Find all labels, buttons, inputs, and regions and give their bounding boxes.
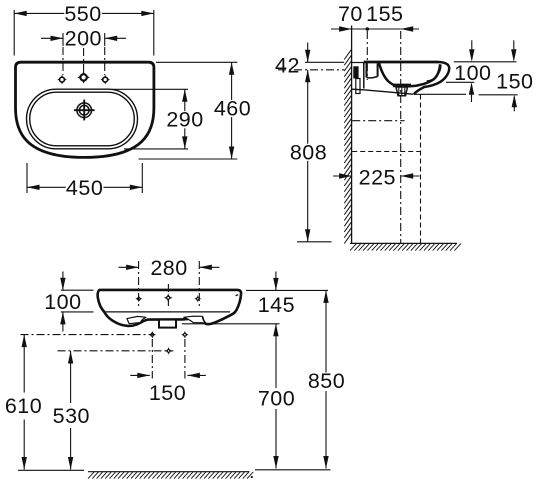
dim 42: label <box>275 54 300 78</box>
side view: front rim lip inner <box>427 65 441 81</box>
dim 70: label <box>338 2 363 26</box>
dim 808: dimension line <box>305 70 310 242</box>
dim 100/150: top extension line <box>454 61 517 63</box>
dim 70/155: wall extension line <box>351 26 353 46</box>
dim 225: dimension line <box>333 173 420 178</box>
side view: rim top surface <box>364 61 439 64</box>
dim 200: dimension line <box>41 36 126 41</box>
dim 100 front: extension lines <box>61 290 94 312</box>
dim 610: label <box>5 394 42 418</box>
dim 200: extension lines <box>63 33 105 75</box>
dim 550: extension lines <box>14 10 154 56</box>
dim 550: label <box>64 2 102 26</box>
dim 200: label <box>65 26 102 50</box>
svg-text:70: 70 <box>338 2 363 26</box>
dim 100: label <box>454 61 491 85</box>
front view: floor reference line right <box>255 469 331 471</box>
svg-text:460: 460 <box>214 97 251 121</box>
plan view: centre tap hole <box>77 71 90 84</box>
dim 145: arrows <box>273 272 278 337</box>
front view: floor reference line left <box>18 469 84 471</box>
svg-text:150: 150 <box>149 381 186 405</box>
svg-text:290: 290 <box>166 108 203 132</box>
front view: right fixing hole <box>181 331 188 338</box>
dim 42: fixing axis dash-dot <box>278 69 344 71</box>
front view: right wing <box>184 316 206 323</box>
side view: bowl inner profile <box>379 63 440 86</box>
side view: drain trap nut <box>396 87 408 96</box>
front view: lower fixing axis dash-dot <box>58 350 174 352</box>
dim 700: dimension line <box>273 324 278 469</box>
dim 100: bottom extension line <box>446 81 474 83</box>
front view: left tap hole <box>135 295 142 302</box>
svg-text:550: 550 <box>64 2 101 26</box>
dim 290: label <box>166 108 204 132</box>
svg-text:100: 100 <box>44 290 81 314</box>
dim 530: label <box>53 404 90 428</box>
front view: floor hatching <box>88 472 253 479</box>
side view: rim back thin ledge <box>352 62 364 64</box>
dim 150: bottom extension line <box>414 93 518 96</box>
dim 145: top extension line <box>246 289 328 291</box>
plan view: right tap hole <box>100 75 110 85</box>
front view: corner tick <box>236 295 239 296</box>
dim 150 front: dimension line <box>130 373 206 378</box>
front view: basin outline <box>98 290 241 326</box>
dim 150: arrows <box>511 40 517 111</box>
dim 145: bottom extension line <box>182 323 280 325</box>
dim 530: dimension line <box>68 351 73 470</box>
svg-text:225: 225 <box>359 165 396 189</box>
side view: drain flange <box>392 84 412 86</box>
svg-text:100: 100 <box>454 61 491 85</box>
dim 70/155: dimension line <box>331 26 419 31</box>
front view: fixing hole axes dash-dot <box>152 339 185 379</box>
side view: lower fixing axis dash-dot <box>352 120 404 122</box>
svg-text:145: 145 <box>258 293 295 317</box>
dim 610: dimension line <box>22 335 27 470</box>
dim 550: dimension line <box>14 11 154 16</box>
dim 100: arrow tail <box>471 40 473 49</box>
dim 808: label <box>290 140 328 164</box>
svg-text:808: 808 <box>290 140 327 164</box>
front view: upper fixing axis dash-dot <box>21 334 155 336</box>
dim 150: label <box>496 69 533 93</box>
dim 150 front: label <box>149 381 186 405</box>
dim 290: dimension line <box>182 89 187 149</box>
side view: basin back edge <box>363 62 365 89</box>
plan view: left tap hole <box>57 75 67 85</box>
plan view: bowl outer rim <box>27 89 138 149</box>
side view: fixing bracket <box>353 66 360 93</box>
svg-text:155: 155 <box>366 2 403 26</box>
dim 850: label <box>308 369 345 393</box>
svg-text:700: 700 <box>258 387 295 411</box>
side view: wall hatching <box>344 49 351 243</box>
dim 460: dimension line <box>229 62 234 159</box>
dim 280: dimension line <box>119 265 220 270</box>
front view: right tap hole <box>194 295 201 302</box>
side view: front rim lip outer <box>414 62 449 94</box>
dim 450: extension lines <box>27 163 142 193</box>
dim 225: label <box>359 165 396 189</box>
dim 460: extension lines <box>139 62 238 159</box>
side view: tap hole axis dash-dot <box>366 31 368 80</box>
dim 290: extension lines <box>112 89 188 149</box>
dim 280: extension lines dash-dot <box>139 261 200 308</box>
svg-text:280: 280 <box>150 256 187 280</box>
plan view: basin outer outline <box>16 62 154 157</box>
svg-text:850: 850 <box>308 369 345 393</box>
side view: basin underside <box>352 89 413 94</box>
dim 700: label <box>258 387 295 411</box>
front view: drain box <box>159 320 176 328</box>
dim 850: dimension line <box>323 290 328 468</box>
svg-text:610: 610 <box>5 394 42 418</box>
dim 100: arrows <box>469 40 475 102</box>
side view: drain axis dash-dot <box>400 31 402 243</box>
front view: left wing <box>127 316 146 323</box>
dim 155: label <box>366 2 403 26</box>
dim 100 front: arrows <box>60 272 65 332</box>
svg-text:150: 150 <box>496 69 533 93</box>
front view: siphon fixing hole <box>165 347 172 354</box>
front view: centre tap hole <box>164 294 173 303</box>
side view: floor line and hatching <box>350 243 461 250</box>
dim 460: label <box>214 97 252 121</box>
svg-text:530: 530 <box>53 404 90 428</box>
svg-text:200: 200 <box>65 26 102 50</box>
svg-text:42: 42 <box>275 54 300 78</box>
dim 808: floor reference line <box>297 241 332 243</box>
dim 42: rim extension line <box>305 61 344 63</box>
side view: overflow channel <box>367 63 378 78</box>
svg-text:450: 450 <box>66 176 103 200</box>
dim 450: label <box>66 176 104 200</box>
front view: left fixing hole <box>149 331 156 338</box>
plan view: bowl inner rim <box>30 92 135 146</box>
plan view: drain symbol <box>74 100 95 121</box>
dim 145: label <box>258 293 295 317</box>
side view: wall face line <box>351 26 353 244</box>
dim 42: arrows <box>305 43 310 83</box>
dim 100 front: label <box>44 290 81 314</box>
dim 450: dimension line <box>27 185 142 190</box>
dim 280: label <box>150 256 187 280</box>
front view: underside waist line <box>104 311 230 313</box>
side view: hidden trap outline dashed <box>352 95 420 244</box>
